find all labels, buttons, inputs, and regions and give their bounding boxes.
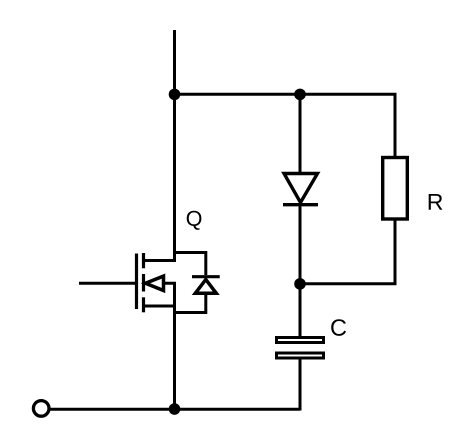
wire: drain rail down to MOSFET drain [173, 94, 176, 262]
channel segment (body) [142, 274, 145, 292]
wire: MOSFET source down to bottom rail [173, 305, 176, 410]
node: junction diode/resistor/capacitor [294, 278, 306, 290]
drain connection [144, 259, 175, 262]
wire: node down to capacitor top plate [299, 284, 302, 337]
body diode top connection [175, 253, 206, 276]
node: junction of diode branch on top rail [294, 89, 306, 101]
body diode cathode bar [192, 275, 220, 278]
terminal: open circle input terminal [33, 401, 49, 417]
body diode bottom connection [175, 294, 206, 313]
transistor Q (N-channel MOSFET with body diode) [79, 253, 220, 313]
label R [429, 194, 443, 210]
gate bar [135, 254, 138, 310]
body arrow (points to channel) [146, 276, 164, 290]
body diode triangle (anode bottom, pointing up) [195, 280, 216, 294]
source connection [144, 305, 177, 308]
wire: diode branch upper segment [299, 94, 302, 173]
wire: bottom rail [50, 408, 300, 411]
capacitor C (two plate bars) [277, 338, 324, 359]
node: junction of source wire and bottom rail [169, 403, 181, 415]
resistor R [383, 158, 408, 220]
node: junction of drain rail and top rail [169, 89, 181, 101]
wire: top horizontal rail with corner down to resistor [175, 94, 396, 157]
channel segment (source) [142, 297, 145, 312]
label Q [187, 211, 202, 230]
wire: capacitor bottom to bottom rail [299, 358, 302, 411]
wire: diode branch lower segment [299, 205, 302, 284]
wire: top supply feed into drain rail [173, 30, 176, 94]
body connection with corner down to source [145, 283, 175, 306]
gate lead [79, 282, 137, 285]
label C [331, 319, 346, 336]
diode (freewheel diode, anode top) [283, 174, 318, 205]
channel segment (drain) [142, 253, 145, 268]
wire: resistor bottom to snubber node [300, 219, 395, 284]
